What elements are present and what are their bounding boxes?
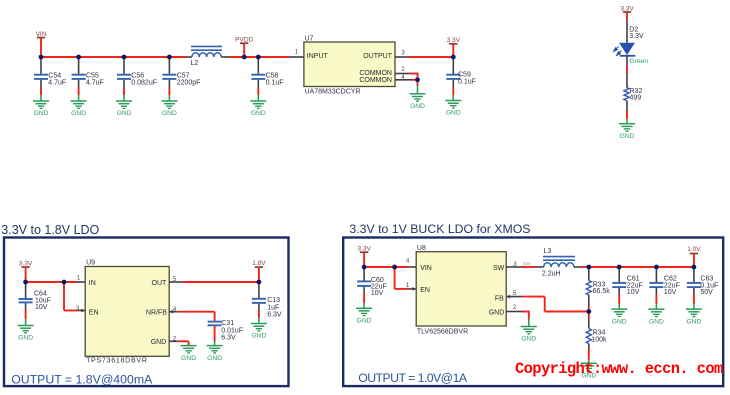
power port PVDD <box>235 36 253 57</box>
wire U7 common pin4 <box>395 79 418 81</box>
ground C60 <box>356 308 372 324</box>
node C61 junction <box>617 265 622 270</box>
regulator U7 UA78M33CDCYR body <box>304 36 395 96</box>
svg-text:0.1uF: 0.1uF <box>266 80 284 87</box>
svg-text:GND: GND <box>251 110 266 117</box>
pin 3 label U9 <box>76 306 80 312</box>
regulator U8 TLV62568DBVR body <box>416 245 506 335</box>
svg-text:10V: 10V <box>371 290 384 297</box>
svg-text:UA78M33CDCYR: UA78M33CDCYR <box>305 88 361 95</box>
svg-text:GND: GND <box>410 103 425 110</box>
svg-text:2200pF: 2200pF <box>177 80 201 87</box>
svg-text:C13: C13 <box>267 297 280 304</box>
pin 4 label U7 <box>401 75 405 81</box>
svg-text:10V: 10V <box>664 289 677 296</box>
svg-text:GND: GND <box>649 318 664 325</box>
svg-text:3.3V to 1V BUCK LDO for XMOS: 3.3V to 1V BUCK LDO for XMOS <box>349 222 530 236</box>
svg-text:COMMON: COMMON <box>359 70 392 77</box>
svg-text:2.2uH: 2.2uH <box>542 270 561 277</box>
wire LED to R32 <box>626 56 628 88</box>
svg-text:3.3V to 1.8V LDO: 3.3V to 1.8V LDO <box>1 223 99 237</box>
capacitor C59 0.1uF <box>446 57 476 101</box>
svg-text:0.1uF: 0.1uF <box>458 78 476 85</box>
pin 2 label U9 <box>173 336 177 342</box>
svg-text:4.7uF: 4.7uF <box>86 80 104 87</box>
title 3.3V to 1V BUCK LDO for XMOS <box>349 222 530 236</box>
power port 3.3V box2 <box>357 246 371 267</box>
svg-text:Copyright:www. eccn. com: Copyright:www. eccn. com <box>515 360 723 378</box>
node EN branch junction box2 <box>392 265 397 270</box>
ground C58 <box>250 101 266 117</box>
svg-text:66.5k: 66.5k <box>593 288 611 295</box>
wire EN branch box1 <box>64 282 85 312</box>
svg-text:C64: C64 <box>34 291 47 298</box>
svg-text:C57: C57 <box>177 73 190 80</box>
power port 3.3V top <box>447 37 461 57</box>
ground C61 <box>611 309 627 325</box>
svg-text:100k: 100k <box>591 336 607 343</box>
svg-text:L3: L3 <box>544 248 552 255</box>
ground C31 <box>207 346 223 362</box>
ground U9 pin2 <box>181 346 197 362</box>
ground C62 <box>648 309 664 325</box>
LED D2 labels <box>629 27 644 41</box>
power port 1.8V <box>252 260 266 282</box>
svg-text:GND: GND <box>251 333 266 340</box>
power port 3.3V LED <box>620 6 634 43</box>
pin 5 label U9 <box>173 277 177 283</box>
svg-text:IN: IN <box>89 280 96 287</box>
svg-text:GND: GND <box>117 110 132 117</box>
node C64 junction <box>23 280 28 285</box>
wire box2 input rail <box>364 266 416 268</box>
wire U8 SW pin <box>506 261 543 267</box>
svg-text:GND: GND <box>489 310 505 317</box>
title 3.3V to 1.8V LDO <box>1 223 99 237</box>
svg-text:C55: C55 <box>86 73 99 80</box>
pin 3 label U7 <box>401 51 405 57</box>
regulator U9 TPS73618DBVR body <box>85 259 169 364</box>
svg-text:0.01uF: 0.01uF <box>221 327 243 334</box>
output note box1 <box>11 372 153 386</box>
copyright text <box>515 360 723 378</box>
svg-text:6.3V: 6.3V <box>267 312 282 319</box>
resistor R32 499 <box>624 88 642 102</box>
wire U7 output to 3.3V <box>395 56 453 58</box>
svg-text:OUTPUT = 1.0V@1A: OUTPUT = 1.0V@1A <box>358 371 468 385</box>
ground C64 <box>18 326 34 342</box>
svg-text:GND: GND <box>181 355 196 362</box>
svg-text:GND: GND <box>18 335 33 342</box>
ground C54 <box>33 101 49 117</box>
node C60 junction <box>362 265 367 270</box>
node C62 junction <box>654 265 659 270</box>
svg-text:L2: L2 <box>191 60 199 67</box>
ground C55 <box>71 101 87 117</box>
svg-text:U7: U7 <box>305 36 314 43</box>
node PVDD junction <box>242 55 247 60</box>
svg-text:C56: C56 <box>131 73 144 80</box>
node C57 junction <box>167 55 172 60</box>
capacitor C60 22uF <box>357 267 387 308</box>
ground R34 <box>581 363 597 379</box>
capacitor C57 2200pF <box>162 57 200 101</box>
svg-text:50V: 50V <box>700 289 713 296</box>
capacitor C63 0.1uF <box>687 267 718 309</box>
power port 3.3V box1 <box>19 261 33 282</box>
svg-text:EN: EN <box>89 310 99 317</box>
ground C59 <box>445 101 461 117</box>
svg-text:1.0V: 1.0V <box>687 246 701 253</box>
svg-text:FB: FB <box>495 295 504 302</box>
wire L2 to PVDD <box>230 56 259 58</box>
svg-text:6.3V: 6.3V <box>221 335 236 342</box>
svg-text:C31: C31 <box>221 320 234 327</box>
ground U8 pin2 <box>521 327 537 343</box>
wire EN branch box2 <box>395 267 417 291</box>
svg-text:C54: C54 <box>48 73 61 80</box>
wire U9 out to 1.8V <box>169 281 259 283</box>
pin 5 label U8 <box>513 291 517 297</box>
svg-text:1uF: 1uF <box>267 304 279 311</box>
svg-text:GND: GND <box>357 317 372 324</box>
svg-text:10V: 10V <box>35 304 48 311</box>
svg-text:Green: Green <box>629 58 648 65</box>
svg-text:4.7uF: 4.7uF <box>48 80 66 87</box>
pin 2 label U7 <box>401 67 405 73</box>
svg-text:OUTPUT: OUTPUT <box>363 53 393 60</box>
wire VIN rail <box>41 56 186 58</box>
ground C63 <box>686 309 702 325</box>
svg-text:GND: GND <box>620 133 635 140</box>
node EN branch junction box1 <box>62 280 67 285</box>
svg-text:GND: GND <box>162 110 177 117</box>
inductor L2 <box>186 46 230 67</box>
wire box1 input rail <box>26 281 86 283</box>
resistor R33 66.5k <box>586 267 610 312</box>
wire U8 gnd pin <box>506 311 529 327</box>
inductor L3 <box>542 248 589 277</box>
capacitor C58 0.1uF <box>251 57 283 101</box>
wire U9 NR/FB to C31 <box>169 310 214 321</box>
capacitor C56 0.082uF <box>117 57 157 101</box>
capacitor C54 4.7uF <box>34 57 66 101</box>
svg-text:GND: GND <box>151 339 167 346</box>
svg-text:GND: GND <box>612 318 627 325</box>
pin 1 label U7 <box>295 50 299 56</box>
output note box2 <box>358 371 468 385</box>
svg-text:1.8V: 1.8V <box>252 260 266 267</box>
wire U9 gnd pin <box>169 341 188 345</box>
svg-text:C59: C59 <box>458 71 471 78</box>
wire R32 to GND <box>626 101 628 124</box>
svg-text:U9: U9 <box>86 259 95 266</box>
node FB junction <box>586 309 591 314</box>
capacitor C62 22uF <box>649 267 679 309</box>
svg-text:GND: GND <box>34 110 49 117</box>
svg-text:GND: GND <box>521 336 536 343</box>
svg-text:SW: SW <box>493 265 505 272</box>
LED color label Green <box>629 58 648 65</box>
svg-text:NR/FB: NR/FB <box>146 310 167 317</box>
pin 3 label U8 <box>513 262 517 268</box>
capacitor C13 1uF <box>252 282 282 324</box>
svg-text:499: 499 <box>630 95 642 102</box>
svg-text:OUTPUT = 1.8V@400mA: OUTPUT = 1.8V@400mA <box>11 372 153 386</box>
node R33 junction <box>586 265 591 270</box>
pin 2 label U8 <box>513 305 517 311</box>
pin 1 label U8 <box>406 283 410 289</box>
node C13 junction <box>257 280 262 285</box>
wire U7 common pin2 <box>395 73 418 80</box>
svg-text:INPUT: INPUT <box>307 53 329 60</box>
node C56 junction <box>122 55 127 60</box>
svg-text:U8: U8 <box>417 245 426 252</box>
wire U8 FB pin <box>506 295 589 312</box>
node C58 junction <box>256 55 261 60</box>
capacitor C61 22uF <box>612 267 643 309</box>
power port 1.0V <box>687 246 701 267</box>
power port VIN <box>36 31 47 57</box>
svg-text:GND: GND <box>446 110 461 117</box>
svg-text:TLV62568DBVR: TLV62568DBVR <box>417 329 468 336</box>
capacitor C31 0.01uF <box>208 320 243 345</box>
capacitor C64 10uF <box>19 282 51 326</box>
pin 4 label U9 <box>173 307 177 313</box>
ground U7 common <box>410 80 426 110</box>
ground LED <box>619 124 635 140</box>
node U7 common junction <box>415 77 420 82</box>
frame BUCK box <box>343 238 723 387</box>
svg-text:10V: 10V <box>627 289 640 296</box>
ground C13 <box>251 324 267 340</box>
svg-text:VIN: VIN <box>420 265 432 272</box>
capacitor C55 4.7uF <box>72 57 104 101</box>
svg-text:C58: C58 <box>266 73 279 80</box>
svg-text:TPS73618DBVR: TPS73618DBVR <box>86 358 148 365</box>
node C63 junction <box>692 265 697 270</box>
svg-text:GND: GND <box>207 355 222 362</box>
svg-text:OUT: OUT <box>152 280 168 287</box>
wire output rail box2 <box>589 266 694 268</box>
node C59 junction <box>451 55 456 60</box>
svg-text:0.082uF: 0.082uF <box>131 80 157 87</box>
svg-text:SW: SW <box>523 261 531 267</box>
node C54 junction <box>39 55 44 60</box>
wire PVDD to U7 <box>258 56 304 58</box>
svg-text:COMMON: COMMON <box>359 77 392 84</box>
pin 4 label U8 <box>406 258 410 264</box>
pin 1 label U9 <box>77 276 81 282</box>
svg-text:GND: GND <box>71 110 86 117</box>
svg-text:3.3V: 3.3V <box>629 33 644 40</box>
ground C56 <box>116 101 132 117</box>
resistor R34 100k <box>586 312 607 364</box>
LED D2 <box>614 43 636 56</box>
ground C57 <box>161 101 177 117</box>
svg-text:EN: EN <box>420 287 430 294</box>
svg-text:GND: GND <box>686 318 701 325</box>
node C55 junction <box>76 55 81 60</box>
frame LDO 1.8V box <box>4 238 289 387</box>
